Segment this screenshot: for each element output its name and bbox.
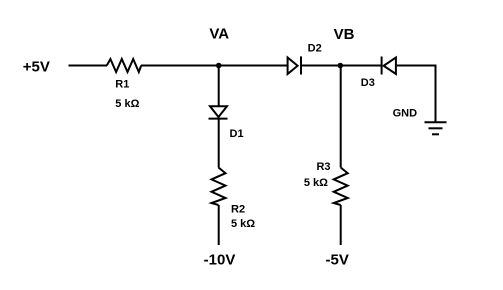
wire from D2 cathode to D3 cathode through node VB <box>301 65 382 67</box>
wire from R2 to -10V terminal <box>218 205 220 245</box>
wire from +5V to R1 <box>69 65 108 67</box>
svg-text:R1: R1 <box>115 79 129 91</box>
resistor R1 <box>107 59 141 72</box>
svg-text:5 kΩ: 5 kΩ <box>231 218 255 230</box>
svg-text:VA: VA <box>209 26 229 43</box>
diode D2 cathode bar <box>300 56 302 74</box>
wire from node VB down to R3 <box>340 66 342 168</box>
svg-text:-10V: -10V <box>204 252 236 269</box>
node VB junction dot <box>338 63 344 69</box>
diode D3 cathode bar <box>381 57 383 75</box>
wire from D1 cathode to R2 <box>218 119 220 168</box>
wire from node VA down to D1 anode <box>218 66 220 107</box>
wire from D3 anode to ground corner <box>396 66 436 123</box>
wire from R1 to D2 anode through node VA <box>141 65 288 67</box>
svg-text:R3: R3 <box>316 161 330 173</box>
node VA junction dot <box>216 63 222 69</box>
ground <box>425 122 447 134</box>
resistor R3 <box>334 168 348 206</box>
svg-text:D1: D1 <box>230 128 244 140</box>
svg-text:+5V: +5V <box>23 58 50 75</box>
svg-text:VB: VB <box>334 26 355 43</box>
diode D3 triangle <box>384 58 396 75</box>
svg-text:D3: D3 <box>361 77 375 89</box>
diode D1 triangle <box>210 106 227 117</box>
diode D1 cathode bar <box>209 118 228 120</box>
svg-text:-5V: -5V <box>326 252 349 269</box>
svg-text:GND: GND <box>393 107 418 119</box>
resistor R2 <box>212 168 226 206</box>
svg-text:5 kΩ: 5 kΩ <box>304 177 328 189</box>
svg-text:R2: R2 <box>231 204 245 216</box>
svg-text:5 kΩ: 5 kΩ <box>115 98 139 110</box>
svg-text:D2: D2 <box>308 43 322 55</box>
wire from R3 to -5V terminal <box>340 205 342 245</box>
diode D2 triangle <box>288 58 298 75</box>
